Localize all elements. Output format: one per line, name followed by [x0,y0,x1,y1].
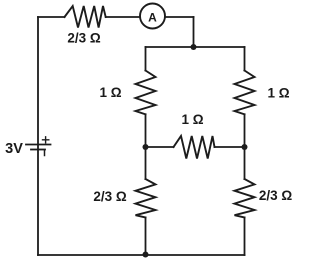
svg-text:1 Ω: 1 Ω [267,86,289,101]
wire R1 to ammeter [106,16,140,18]
wire R5 to bottom rail [145,218,147,256]
svg-text:2/3 Ω: 2/3 Ω [93,189,127,204]
svg-text:1 Ω: 1 Ω [99,85,121,100]
ammeter A1 circle [140,4,165,29]
node N3 junction dot [242,144,248,150]
wire R6 to bottom rail [244,218,246,256]
battery V1 long plate [26,144,51,146]
resistor R1 2/3 ohm (top horizontal) [65,6,106,28]
node N1 junction dot [191,44,197,50]
wire middle rail right segment [215,146,245,148]
wire right branch upper lead [244,47,246,71]
wire bottom rail [38,254,245,256]
battery V1 short plate [31,149,45,151]
wire left branch upper lead [145,47,147,71]
svg-text:2/3 Ω: 2/3 Ω [67,31,101,46]
resistor R3 1 ohm (right branch) [235,71,255,115]
node N2 junction dot [143,144,149,150]
wire second horizontal rail [146,46,245,48]
wire right branch lower lead [244,147,246,179]
resistor R6 2/3 ohm (bottom right) [235,179,255,218]
svg-text:1 Ω: 1 Ω [181,112,203,127]
resistor R4 1 ohm (middle horizontal) [174,136,215,159]
wire left branch lower lead [145,147,147,179]
node N4 junction dot [143,252,149,258]
svg-text:A: A [148,10,157,24]
wire top from left corner to R1 [38,16,65,18]
wire middle rail left segment [146,146,174,148]
wire R2 to node N2 [145,114,147,147]
wire left vertical (battery branch) [37,17,39,255]
resistor R2 1 ohm (left branch) [136,71,156,115]
wire ammeter to top-right corner [165,16,194,18]
battery V1 plus sign [43,137,49,143]
wire R3 to node N3 [244,114,246,147]
resistor R5 2/3 ohm (bottom left) [136,179,156,218]
battery V1 negative tick [44,150,46,156]
svg-text:2/3 Ω: 2/3 Ω [259,188,293,203]
wire top-right corner down to node N1 [193,17,195,47]
svg-text:3V: 3V [5,141,23,157]
